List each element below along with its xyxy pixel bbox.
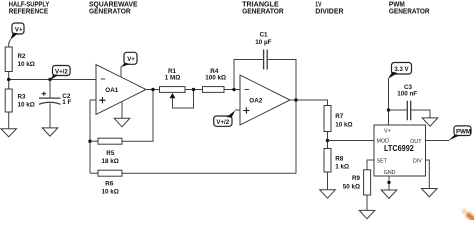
capacitor C3	[397, 84, 417, 120]
wire 3.3V to IC V+ pin	[388, 79, 390, 125]
svg-text:10 µF: 10 µF	[255, 39, 271, 46]
ground (C2)	[42, 128, 58, 136]
svg-text:SET: SET	[377, 159, 388, 165]
junction C2 tap	[48, 78, 51, 81]
svg-text:V+: V+	[15, 26, 23, 33]
wire R8 to ground	[327, 172, 329, 190]
svg-text:3.3 V: 3.3 V	[394, 66, 409, 73]
wire C3 to ground	[411, 110, 430, 118]
wire C2 to ground	[49, 103, 51, 128]
svg-text:GND: GND	[384, 170, 396, 176]
section header PWM GENERATOR	[389, 1, 430, 15]
wire V+ flag stub to OA1 top edge	[120, 67, 122, 77]
junction GND wire	[387, 181, 390, 184]
svg-text:GENERATOR: GENERATOR	[242, 9, 284, 16]
wire OA1 output	[146, 89, 160, 91]
wire C1 right to OA2 output	[268, 60, 296, 101]
wire OUT pin to PWM flag	[426, 140, 450, 142]
svg-text:SQUAREWAVE: SQUAREWAVE	[89, 1, 138, 8]
wire junction to C3	[389, 109, 407, 111]
svg-text:OA1: OA1	[105, 87, 118, 94]
section header 1V DIVIDER	[315, 1, 343, 15]
capacitor C2 (polarized)	[39, 92, 72, 106]
node V+/2 row wire to OA1 inverting input	[9, 79, 96, 81]
svg-text:R5: R5	[106, 150, 115, 157]
svg-text:R9: R9	[352, 175, 361, 182]
ground (OA1)	[114, 118, 130, 127]
net flag V+/2 (at C2 node)	[50, 66, 70, 81]
svg-text:100 nF: 100 nF	[397, 91, 417, 98]
wire SET pin to R9	[367, 160, 374, 170]
svg-text:R3: R3	[18, 93, 27, 100]
resistor R9	[343, 170, 371, 195]
junction R2/R3 node	[7, 78, 10, 81]
wire R6 left lead	[90, 172, 98, 174]
resistor R6	[98, 170, 122, 195]
svg-text:V+/2: V+/2	[55, 68, 68, 75]
resistor R4	[203, 68, 227, 92]
wire OA1 negative supply to ground	[121, 102, 123, 119]
svg-text:1 F: 1 F	[62, 99, 71, 106]
svg-text:10 kΩ: 10 kΩ	[18, 61, 35, 68]
svg-text:10 kΩ: 10 kΩ	[18, 101, 35, 108]
svg-text:R8: R8	[335, 156, 344, 163]
svg-text:R7: R7	[335, 113, 344, 120]
svg-text:PWM: PWM	[456, 129, 471, 136]
wire R2 to R3	[8, 72, 10, 90]
svg-text:GENERATOR: GENERATOR	[389, 9, 430, 16]
svg-text:HALF-SUPPLY: HALF-SUPPLY	[9, 1, 50, 8]
svg-text:1 MΩ: 1 MΩ	[165, 75, 181, 82]
svg-text:10 kΩ: 10 kΩ	[335, 122, 352, 129]
section header SQUAREWAVE GENERATOR	[89, 1, 138, 15]
svg-text:LTC6992: LTC6992	[384, 144, 414, 153]
wire R5 left lead	[90, 140, 98, 142]
junction OA2 output	[294, 98, 297, 101]
net flag V+/2 (at OA2 + input)	[214, 110, 236, 126]
svg-text:V+: V+	[127, 56, 135, 63]
svg-text:100 kΩ: 100 kΩ	[205, 75, 226, 82]
ground (DIV)	[422, 189, 438, 197]
wire R3 to ground	[8, 112, 10, 129]
svg-text:DIV: DIV	[413, 159, 422, 165]
svg-text:R6: R6	[105, 181, 114, 188]
svg-text:1V: 1V	[315, 1, 321, 8]
wire OA1 noninverting input down	[90, 100, 96, 173]
power flag V+ (OA1 supply)	[120, 52, 137, 67]
junction R7/R8/MOD	[326, 139, 329, 142]
junction R5 left	[88, 140, 91, 143]
svg-text:18 kΩ: 18 kΩ	[102, 158, 119, 165]
op-amp OA2	[240, 75, 290, 125]
wire OA2 output to R7	[290, 100, 328, 106]
ground (C3)	[422, 118, 438, 126]
wire C1 left branch	[234, 60, 263, 90]
svg-text:TRIANGLE: TRIANGLE	[242, 1, 279, 8]
section header HALF-SUPPLY REFERENCE	[9, 1, 50, 15]
svg-text:V+/2: V+/2	[216, 119, 229, 126]
wire node to C2	[49, 80, 51, 99]
svg-text:10 kΩ: 10 kΩ	[102, 189, 119, 196]
wire divider node to MOD pin	[328, 140, 375, 142]
ground (R8)	[320, 190, 336, 198]
power flag V+ (half-supply source)	[10, 23, 24, 40]
resistor R5	[98, 138, 122, 165]
wire R6 right to OA2 output (triangle feedback)	[122, 100, 296, 173]
section header TRIANGLE GENERATOR	[242, 1, 284, 15]
wire OA2 + input stub	[235, 109, 240, 111]
wire DIV pin to ground	[426, 160, 430, 189]
ground (R9)	[359, 210, 375, 218]
wire GND pin to ground	[388, 176, 390, 190]
svg-text:1 kΩ: 1 kΩ	[335, 164, 349, 171]
capacitor C1	[255, 32, 271, 70]
junction 3.3V / C3 / V+	[387, 108, 390, 111]
svg-text:DIVIDER: DIVIDER	[315, 9, 343, 16]
net flag PWM output	[448, 126, 471, 141]
wire V+ to R2	[9, 39, 11, 47]
power flag 3.3 V	[388, 63, 412, 80]
watermark blob bottom-right corner	[462, 209, 474, 222]
ground (IC GND)	[381, 190, 397, 198]
resistor R2	[5, 47, 35, 72]
op-amp OA1	[96, 65, 146, 115]
junction R1 wiper / R4	[192, 88, 195, 91]
wire R1 to R4	[185, 89, 203, 91]
svg-text:GENERATOR: GENERATOR	[89, 9, 131, 16]
svg-text:C1: C1	[260, 32, 269, 39]
junction OA1 output	[151, 88, 154, 91]
wire R7 to R8	[327, 132, 329, 149]
IC U1 LTC6992	[374, 125, 426, 176]
svg-text:OA2: OA2	[249, 98, 262, 105]
wire R9 to ground	[366, 195, 368, 210]
junction C1 branch	[232, 88, 235, 91]
wire R4 to OA2 inverting input	[224, 89, 240, 91]
potentiometer R1	[160, 68, 194, 108]
resistor R7	[324, 106, 353, 132]
svg-text:PWM: PWM	[389, 1, 405, 8]
ground (R3)	[1, 129, 17, 137]
resistor R8	[324, 149, 349, 173]
wire R5 right to OA1 output	[122, 90, 153, 142]
svg-text:REFERENCE: REFERENCE	[9, 9, 49, 16]
svg-text:V+: V+	[384, 129, 391, 135]
svg-text:50 kΩ: 50 kΩ	[343, 183, 360, 190]
resistor R3	[5, 89, 35, 112]
svg-text:R2: R2	[18, 53, 27, 60]
